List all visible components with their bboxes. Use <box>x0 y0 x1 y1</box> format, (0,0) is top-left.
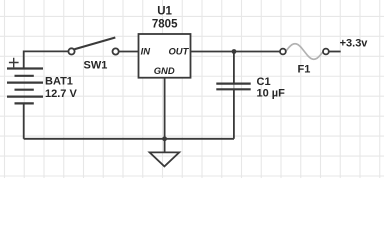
svg-text:IN: IN <box>141 45 151 56</box>
svg-text:BAT1: BAT1 <box>45 76 73 88</box>
switch SW1 <box>68 38 118 55</box>
svg-text:+3.3v: +3.3v <box>340 38 369 50</box>
svg-text:SW1: SW1 <box>84 59 108 71</box>
junction: ground rail node <box>162 136 167 141</box>
wire: battery positive to SW1 <box>24 51 69 68</box>
wire: SW1 to U1 IN <box>119 51 139 53</box>
wire: ground rail <box>24 138 234 140</box>
svg-text:U1: U1 <box>157 6 172 18</box>
wire: U1 GND to ground symbol <box>164 78 166 153</box>
svg-text:GND: GND <box>154 65 175 76</box>
wire: U1 OUT to F1 <box>191 51 281 53</box>
svg-text:10 µF: 10 µF <box>257 87 286 99</box>
svg-text:F1: F1 <box>298 64 311 76</box>
svg-text:12.7 V: 12.7 V <box>45 88 77 100</box>
wire: F1 to +3.3v output <box>329 51 341 53</box>
regulator U1 (7805) <box>139 34 191 78</box>
wire: C1 to ground rail <box>233 90 235 139</box>
svg-text:OUT: OUT <box>169 45 190 56</box>
battery BAT1 <box>7 58 43 104</box>
svg-text:C1: C1 <box>257 76 271 88</box>
ground <box>150 152 180 166</box>
wire: battery negative to ground rail <box>23 103 25 138</box>
svg-text:7805: 7805 <box>152 18 178 30</box>
capacitor C1 <box>216 84 250 90</box>
junction: OUT node <box>232 49 237 54</box>
fuse F1 <box>280 44 329 60</box>
wire: node to C1 <box>233 52 235 84</box>
